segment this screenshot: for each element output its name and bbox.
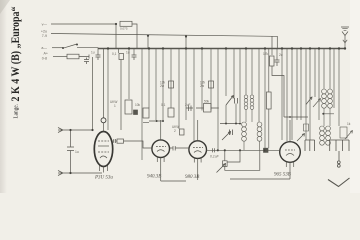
svg-text:10k: 10k [135, 103, 141, 107]
svg-text:1u: 1u [126, 51, 130, 55]
svg-text:2: 2 [174, 129, 176, 133]
svg-text:1: 1 [114, 104, 116, 108]
svg-text:0,1: 0,1 [161, 103, 166, 107]
svg-text:0,1uF: 0,1uF [210, 155, 220, 159]
svg-text:0,075: 0,075 [120, 27, 128, 31]
svg-text:2w: 2w [200, 84, 205, 88]
svg-text:A+: A+ [44, 52, 49, 56]
svg-text:1u: 1u [91, 51, 95, 55]
svg-text:965 53B: 965 53B [274, 173, 291, 178]
svg-text:1k: 1k [347, 122, 351, 126]
svg-text:0-8: 0-8 [42, 57, 47, 61]
svg-text:2 K 4 W (B) „Europa“: 2 K 4 W (B) „Europa“ [8, 7, 22, 102]
svg-text:7-9: 7-9 [42, 34, 47, 38]
svg-text:17k: 17k [263, 52, 269, 56]
svg-text:940.3B: 940.3B [147, 175, 161, 180]
svg-text:2w: 2w [160, 84, 165, 88]
svg-text:a—: a— [41, 46, 47, 50]
svg-text:0,1: 0,1 [112, 52, 117, 56]
svg-text:50k: 50k [204, 100, 210, 104]
svg-text:2u: 2u [279, 53, 283, 57]
svg-text:P3U 53u: P3U 53u [94, 176, 113, 181]
svg-text:980 3B: 980 3B [185, 175, 199, 180]
svg-text:Lange.: Lange. [14, 104, 20, 119]
svg-text:2uF: 2uF [185, 103, 191, 107]
svg-text:v—: v— [42, 23, 48, 27]
svg-text:+2u: +2u [41, 30, 47, 34]
svg-text:1u: 1u [75, 150, 79, 154]
